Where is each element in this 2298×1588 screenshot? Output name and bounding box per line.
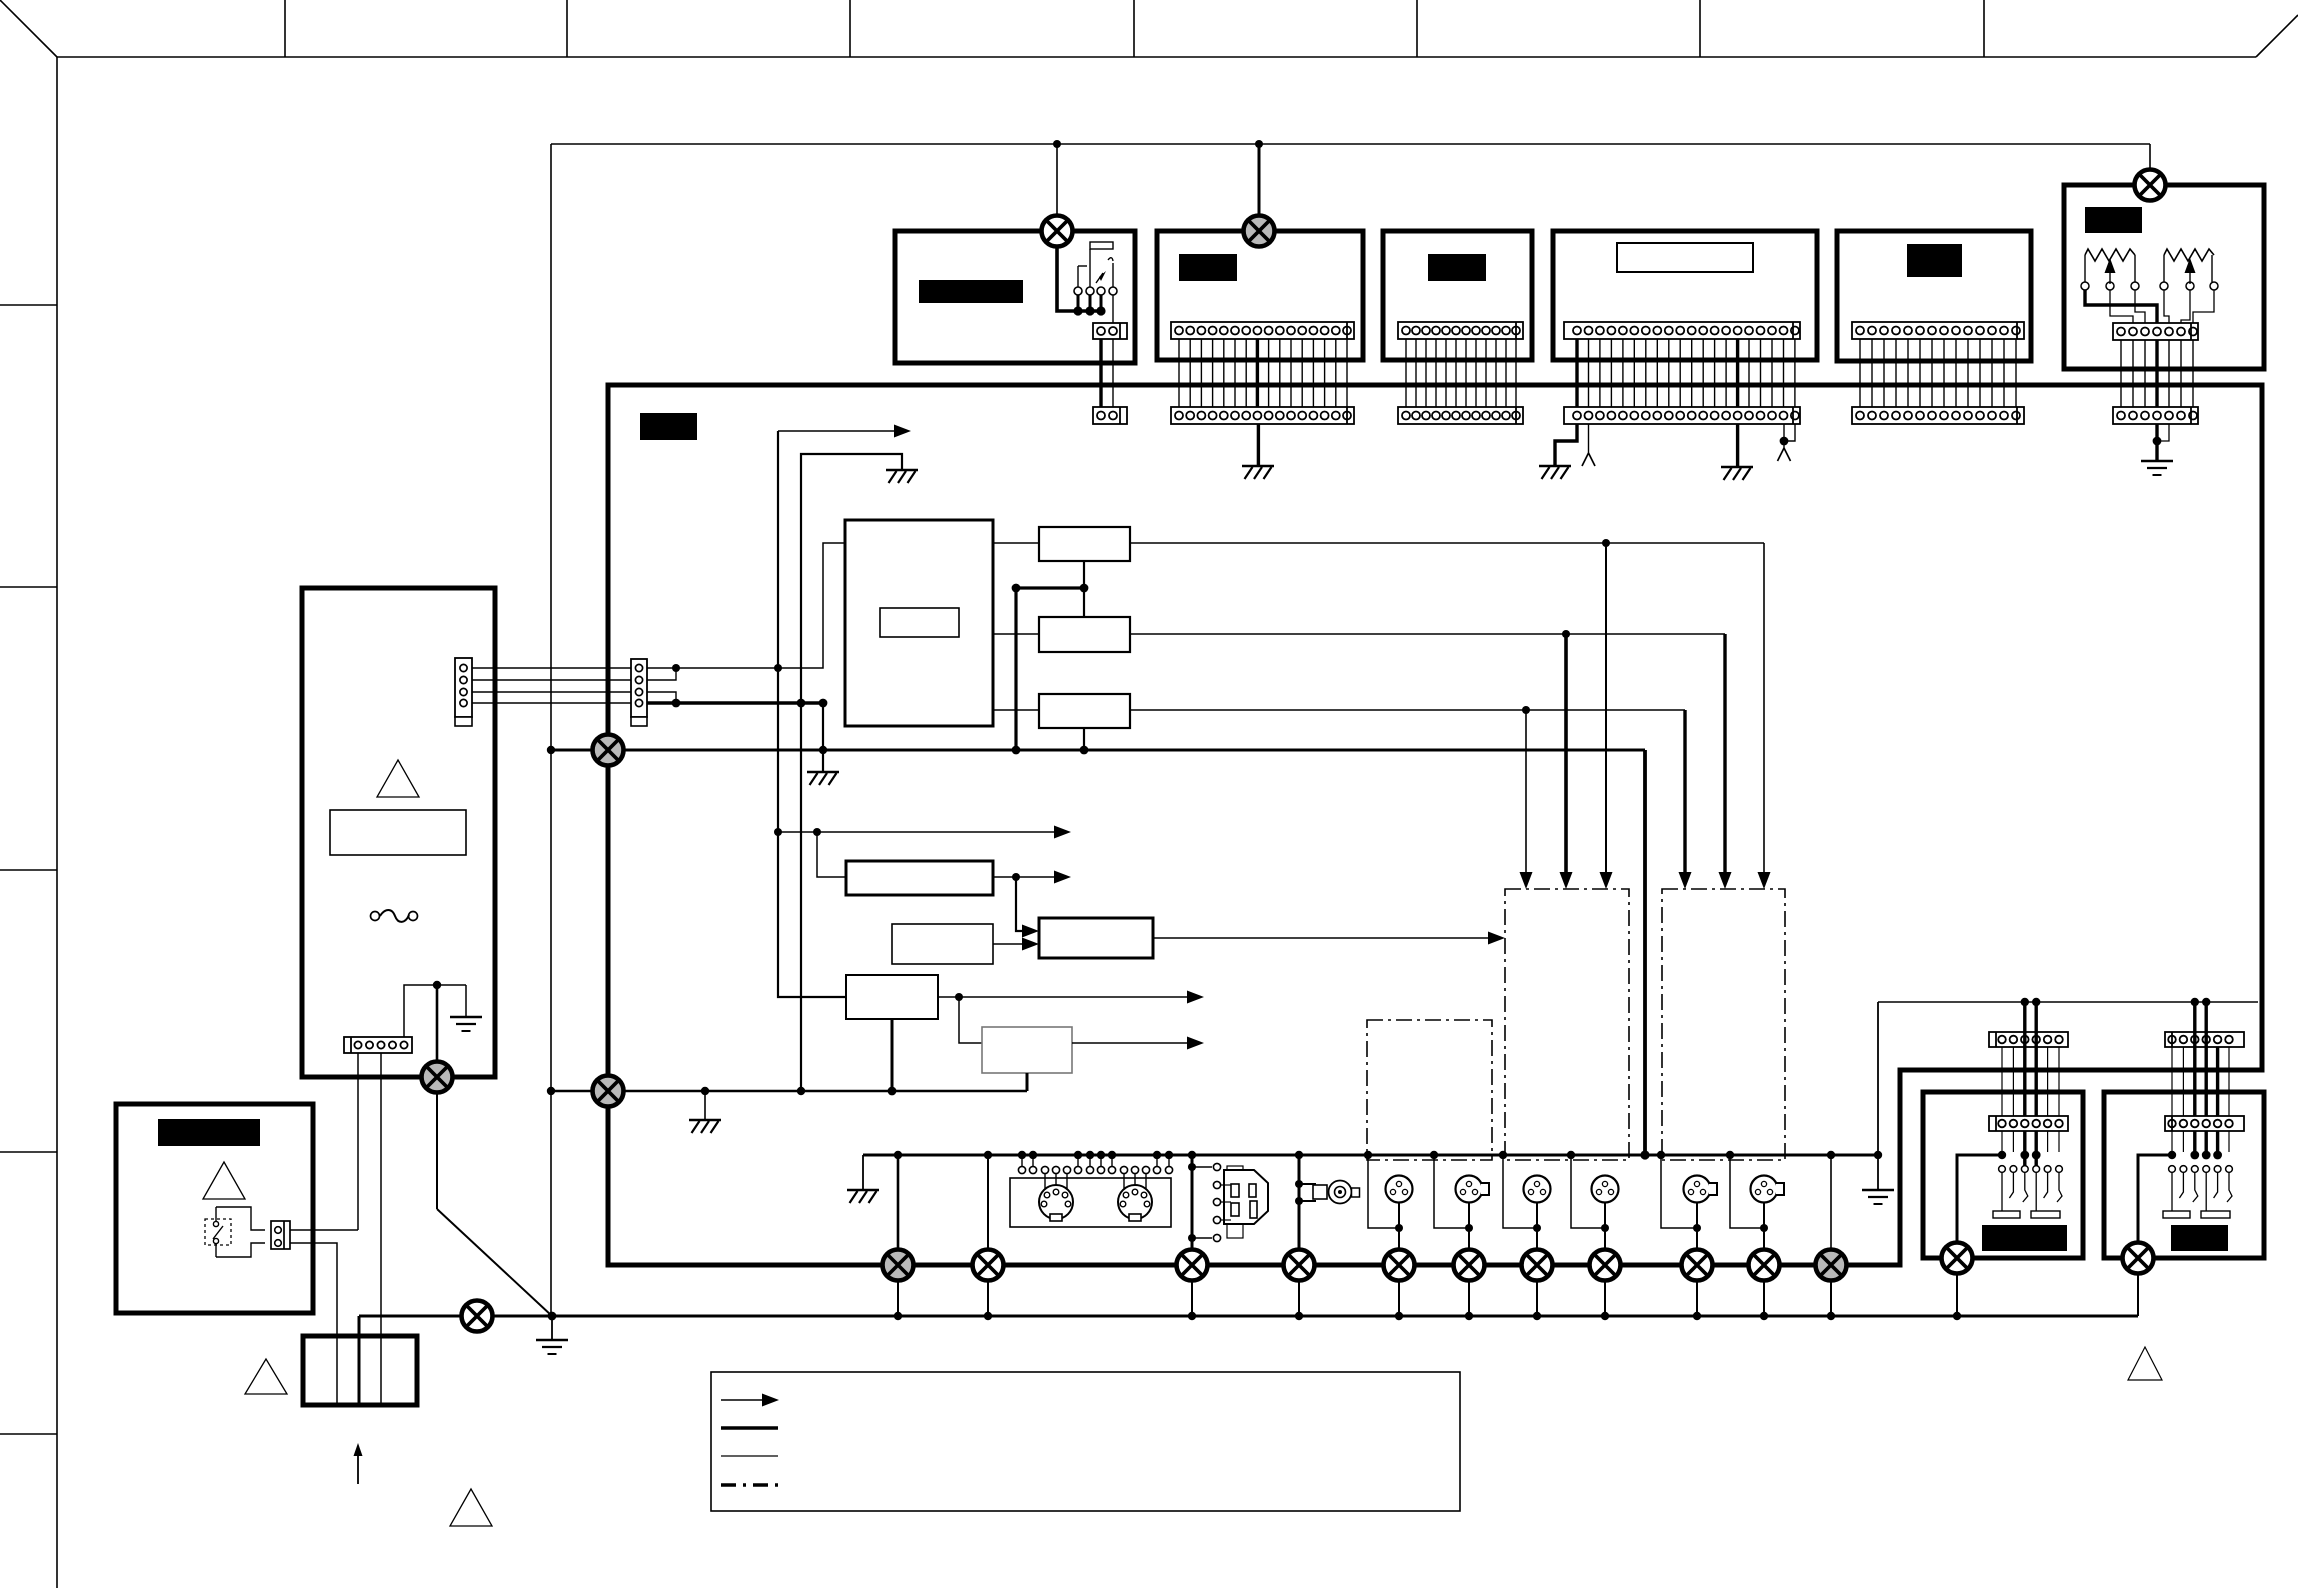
- wire pad stub up x1112: [1111, 1155, 1113, 1166]
- switch box connector: [271, 1221, 290, 1249]
- wire output feed y1002: [1878, 1001, 2258, 1003]
- wire rail left end drop: [862, 1155, 864, 1190]
- junction rail x1169: [1165, 1151, 1173, 1159]
- interconnect X output L: [1942, 1243, 1973, 1274]
- R8 block: [982, 1027, 1072, 1073]
- wire XLR3 stem: [1536, 1203, 1538, 1250]
- ground top arrow line: [886, 470, 918, 483]
- legend arrow row: [721, 1399, 763, 1401]
- junction rail x1033: [1029, 1151, 1037, 1159]
- wire R7 to R8: [959, 997, 982, 1043]
- wire pad stub up x1022: [1021, 1155, 1023, 1166]
- wire R7 output arrow: [938, 996, 1187, 998]
- earth ground main: [536, 1340, 568, 1354]
- main board connector to board5 (14pin): [1852, 407, 2024, 424]
- USB pad y1220: [1213, 1216, 1220, 1223]
- interconnect X output R: [2123, 1243, 2154, 1274]
- wire psu earth run: [404, 985, 466, 1037]
- interconnect X psu bottom (gray): [422, 1062, 453, 1093]
- R6 block: [1039, 918, 1153, 958]
- wire IC to R2: [993, 633, 1039, 635]
- USB pad y1185: [1213, 1181, 1220, 1188]
- wire XLR2 stem: [1468, 1203, 1470, 1250]
- wire X1697 to bottom bus: [1696, 1280, 1698, 1316]
- junction top wire / board1 drop: [1053, 140, 1061, 148]
- junction rail x1661: [1657, 1151, 1665, 1159]
- chassis ground board4 pin19: [1778, 448, 1791, 461]
- board3 name label: [1428, 254, 1486, 281]
- wire board4 pin20 join: [1784, 424, 1795, 441]
- R5 block: [892, 924, 993, 964]
- junction bottom bus x988: [984, 1312, 992, 1320]
- frame tick left 2: [0, 586, 57, 588]
- warning triangle AC inlet: [245, 1359, 287, 1394]
- wire drop to board6 X: [2149, 144, 2151, 170]
- junction bottom bus x1469: [1465, 1312, 1473, 1320]
- wire board4 pin1 ground: [1555, 424, 1577, 466]
- board6 box (volume pots): [2064, 185, 2264, 369]
- wire XLR3 rail branch: [1503, 1155, 1537, 1228]
- interconnect X bottom x1764: [1749, 1250, 1780, 1281]
- wire R3 output: [1130, 709, 1685, 711]
- IC main LSI box: [845, 520, 993, 726]
- DIN connector 1: [1039, 1185, 1073, 1221]
- interconnect X board1 top: [1042, 216, 1073, 247]
- wires output L verticals: [2001, 1047, 2003, 1116]
- board1 power switch circuit: [1090, 242, 1113, 249]
- DIN connector 2: [1118, 1185, 1152, 1221]
- junction bottom bus earth: [548, 1312, 557, 1321]
- wire R4 to R6: [1016, 877, 1022, 931]
- wire pad to DIN1 x1067: [1066, 1174, 1068, 1192]
- wire bus1 drop to rail: [1643, 750, 1647, 1155]
- potentiometer VR1: [2085, 249, 2135, 261]
- board1 internal thick bus: [1057, 247, 1101, 311]
- wire XLR6 stem: [1763, 1203, 1765, 1250]
- fuse symbol: [371, 910, 418, 922]
- sheet frame corner diagonal top-left: [0, 0, 57, 57]
- frame tick top 6: [1699, 0, 1701, 57]
- wire pad stub up x1090: [1089, 1155, 1091, 1166]
- legend box: [711, 1372, 1460, 1511]
- interconnect X bottom x1469: [1454, 1250, 1485, 1281]
- board3 box: [1383, 231, 1532, 360]
- wire pad stub up x1169: [1168, 1155, 1170, 1166]
- frame tick top 3: [849, 0, 851, 57]
- board2 connector (16pin): [1171, 322, 1354, 339]
- wire top loop horizontal: [551, 143, 2150, 145]
- R2 block: [1039, 617, 1130, 652]
- wire board4 pin15 ground: [1736, 424, 1739, 467]
- board5 connector (14pin): [1852, 322, 2024, 339]
- wire ground rail y1155: [863, 1154, 1878, 1157]
- junction board4 pins19-20: [1780, 437, 1789, 446]
- AC inlet box: [303, 1336, 417, 1405]
- wire X1537 to bottom bus: [1536, 1280, 1538, 1316]
- interconnect X bottom gray x1831: [1816, 1250, 1847, 1281]
- wire bottom bus into AC inlet: [358, 1316, 361, 1405]
- junction bottom bus x1697: [1693, 1312, 1701, 1320]
- wire XLR2 rail branch: [1434, 1155, 1469, 1228]
- wire ground branch x823: [822, 703, 824, 772]
- interconnect X bottom x1537: [1522, 1250, 1553, 1281]
- wire pad stub up x1078: [1077, 1155, 1079, 1166]
- wires board4 to main board: [1575, 339, 1578, 407]
- junction XLR5: [1693, 1224, 1701, 1232]
- board1 box (power switch panel): [895, 231, 1135, 363]
- wire X1192 to bottom bus: [1191, 1280, 1193, 1316]
- board3 connector (12pin): [1398, 322, 1523, 339]
- junction bottom bus x898: [894, 1312, 902, 1320]
- wire psu chassis diagonal: [436, 1092, 438, 1209]
- frame tick top 7: [1983, 0, 1985, 57]
- legend thin line row: [721, 1455, 778, 1457]
- wires board6 to main board: [2120, 340, 2122, 407]
- wires board5 to main board: [1859, 339, 1861, 407]
- interconnect X main board left lower (gray): [593, 1076, 624, 1107]
- wire to R4: [817, 832, 846, 877]
- wire switch to inlet: [290, 1243, 337, 1405]
- wire rail right end to earth: [1877, 1002, 1879, 1190]
- wire board1 pin1 thick: [1099, 339, 1102, 407]
- wire output R X to bus: [2137, 1272, 2139, 1316]
- wires output R verticals: [2171, 1047, 2173, 1116]
- warning triangle outputs: [2128, 1347, 2162, 1380]
- sheet frame corner diagonal top-right: [2256, 15, 2298, 57]
- junction bottom bus x1605: [1601, 1312, 1609, 1320]
- earth ground board6: [2141, 461, 2173, 475]
- wire board6 ground: [2155, 424, 2158, 460]
- wire pad to DIN2 x1135: [1134, 1174, 1136, 1192]
- wire ground line (thick): [647, 701, 823, 704]
- junction rail x1157: [1153, 1151, 1161, 1159]
- wire arrow A: [778, 430, 903, 432]
- wire XLR5 stem: [1696, 1203, 1698, 1250]
- wire analog bus y750: [551, 749, 1645, 752]
- interconnect X board6 top: [2135, 170, 2166, 201]
- junction rail x1078: [1074, 1151, 1082, 1159]
- wire R8 to bus2: [1026, 1073, 1029, 1091]
- junction board6 ground: [2153, 437, 2162, 446]
- wire drops into dashed DSP boxes: [1525, 710, 1527, 874]
- main board connector from psu (4pin): [631, 659, 647, 726]
- wire pad to DIN1 x1045: [1044, 1174, 1046, 1192]
- output box L label: [1982, 1225, 2067, 1251]
- wire XLR5 rail branch: [1661, 1155, 1697, 1228]
- power supply box: [302, 588, 495, 1077]
- main board outline: [608, 385, 2262, 1265]
- wire XLR6 rail branch: [1730, 1155, 1764, 1228]
- frame tick top 4: [1133, 0, 1135, 57]
- frame tick left 4: [0, 1151, 57, 1153]
- junction bottom bus x1764: [1760, 1312, 1768, 1320]
- wire X988 to rail: [987, 1155, 989, 1250]
- junction bottom bus x1299: [1295, 1312, 1303, 1320]
- wire IC to R3: [993, 709, 1039, 711]
- upper connector output L: [1989, 1032, 2068, 1047]
- main board connector to board4 (20pin): [1564, 407, 1800, 424]
- frame tick left 1: [0, 304, 57, 306]
- junction rail x1503: [1499, 1151, 1507, 1159]
- junction rail x1112: [1108, 1151, 1116, 1159]
- board1 name label: [919, 280, 1023, 303]
- wire pad stub up x1101: [1100, 1155, 1102, 1166]
- IC inner label outline: [880, 608, 959, 637]
- sheet frame left border: [56, 57, 58, 1588]
- junction bottom bus x1192: [1188, 1312, 1196, 1320]
- interconnect X bottom gray x898: [883, 1250, 914, 1281]
- board4 connector (20pin): [1564, 322, 1800, 339]
- wire R3 to bus1: [1083, 728, 1085, 750]
- inner connector output R: [2165, 1116, 2244, 1131]
- R3 block: [1039, 694, 1130, 728]
- frame tick top 2: [566, 0, 568, 57]
- chassis ground board4 pin2: [1582, 453, 1595, 466]
- junction top wire / board2 drop: [1255, 140, 1263, 148]
- frame tick top 1: [284, 0, 286, 57]
- warning triangle psu: [377, 760, 419, 797]
- output box R label: [2171, 1225, 2228, 1251]
- frame tick top 5: [1416, 0, 1418, 57]
- USB pad y1238: [1213, 1234, 1220, 1241]
- wire board1 pin2: [1112, 339, 1114, 407]
- ground board4 right: [1721, 467, 1753, 480]
- board5 name label: [1907, 244, 1962, 277]
- AC inlet up arrow: [357, 1452, 359, 1484]
- interconnect X board2 top (gray): [1244, 216, 1275, 247]
- junction XLR6: [1760, 1224, 1768, 1232]
- wire gray X898 to rail: [897, 1155, 900, 1250]
- frame tick left 3: [0, 869, 57, 871]
- potentiometer VR2: [2164, 249, 2214, 261]
- main board connector to board2 (16pin): [1171, 407, 1354, 424]
- R7 block: [846, 975, 938, 1019]
- XLR connector 6: [1751, 1176, 1785, 1203]
- wire XLR1 rail branch: [1368, 1155, 1399, 1228]
- junction rail x1192: [1188, 1151, 1196, 1159]
- board2 name label: [1179, 254, 1237, 281]
- wire X898 to bottom bus: [897, 1280, 899, 1316]
- junction XLR3: [1533, 1224, 1541, 1232]
- wire X1299 to bottom bus: [1298, 1280, 1300, 1316]
- wire psu pin3 to inlet: [380, 1053, 382, 1405]
- wire R4 output arrow: [993, 876, 1054, 878]
- wire pad to DIN1 x1056: [1055, 1174, 1057, 1192]
- junction rail x1368: [1364, 1151, 1372, 1159]
- solder pads row: [1018, 1166, 1025, 1173]
- wire XLR4 stem: [1604, 1203, 1606, 1250]
- XLR connector 3: [1524, 1176, 1551, 1203]
- junction rail x1878: [1874, 1151, 1882, 1159]
- wire IC to R1: [993, 542, 1039, 544]
- wire R6 output to dashed box: [1153, 937, 1497, 939]
- wire bus2 ground drop: [704, 1091, 706, 1120]
- interconnect X bottom x1299: [1284, 1250, 1315, 1281]
- board6 pot wiring: [2085, 290, 2157, 323]
- junction bottom bus x1537: [1533, 1312, 1541, 1320]
- interconnect X bottom x1605: [1590, 1250, 1621, 1281]
- junction bottom bus x1399: [1395, 1312, 1403, 1320]
- wire +B line to IC: [647, 543, 846, 668]
- psu output connector (4pin): [455, 658, 472, 726]
- output jack box R: [2104, 1092, 2264, 1258]
- board4 display outline: [1617, 243, 1753, 272]
- wire board4 pin19 chassis: [1783, 424, 1785, 448]
- psu ac connector (5pin): [344, 1037, 412, 1053]
- warning triangle bottom: [450, 1489, 492, 1526]
- junction rail x988: [984, 1151, 992, 1159]
- junction rail x1730: [1726, 1151, 1734, 1159]
- wire pad to DIN2 x1146: [1145, 1174, 1147, 1192]
- junction rail x898: [894, 1151, 902, 1159]
- wire board6 pin5 join: [2157, 424, 2169, 441]
- junction psu earth: [433, 981, 441, 989]
- USB pad y1202: [1213, 1198, 1220, 1205]
- output L jack hooks: [2001, 1173, 2003, 1211]
- inner connector output L: [1989, 1116, 2068, 1131]
- wire drop to board1 X: [1056, 144, 1058, 217]
- board1 connector (2pin): [1093, 323, 1127, 339]
- junction XLR2: [1465, 1224, 1473, 1232]
- wire X1831 to bottom bus: [1830, 1280, 1832, 1316]
- output R jack hooks: [2171, 1173, 2173, 1211]
- sheet frame top border: [57, 56, 2256, 58]
- junction rail x1571: [1567, 1151, 1575, 1159]
- board1 switch pins: [1074, 287, 1082, 295]
- junction rail x1299: [1295, 1151, 1303, 1159]
- wire psu earth drop: [465, 985, 467, 1017]
- wire RCA vertical: [1298, 1155, 1301, 1250]
- interconnect X bottom x988: [973, 1250, 1004, 1281]
- interconnect X bottom bus: [462, 1301, 493, 1332]
- wire arrow B from x778: [778, 831, 1054, 833]
- legend thick line row: [721, 1426, 778, 1430]
- interconnect X bottom x1697: [1682, 1250, 1713, 1281]
- dashed option box D1: [1505, 889, 1629, 1160]
- wire ground vertical x801: [801, 454, 902, 1091]
- wire psu to chassis: [436, 985, 439, 1062]
- earth ground rail right: [1862, 1190, 1894, 1204]
- wires board3 to main board: [1405, 339, 1407, 407]
- wire drop to board2 X: [1258, 144, 1261, 216]
- R1 block: [1039, 527, 1130, 561]
- interconnect X bottom x1192: [1177, 1250, 1208, 1281]
- wire XLR1 stem: [1398, 1203, 1400, 1250]
- wire USB vertical: [1191, 1155, 1194, 1250]
- wire board4 pin2 chassis: [1588, 424, 1590, 453]
- wire XLR4 rail branch: [1571, 1155, 1605, 1228]
- wire X1399 to bottom bus: [1398, 1280, 1400, 1316]
- wires psu to main board (4): [472, 667, 631, 669]
- wire IC link drop to bus1: [1014, 588, 1017, 750]
- wire top loop left vertical: [550, 144, 552, 1316]
- wire R2 output: [1130, 633, 1725, 635]
- wire psu pin1 to switch: [357, 1053, 359, 1230]
- board4 box: [1553, 231, 1817, 360]
- wire pad to DIN2 x1124: [1123, 1174, 1125, 1192]
- wire X1764 to bottom bus: [1763, 1280, 1765, 1316]
- earth ground psu: [450, 1017, 482, 1031]
- wire IC thick link: [1016, 586, 1084, 589]
- dashed option box D2: [1662, 889, 1785, 1160]
- wire X1469 to bottom bus: [1468, 1280, 1470, 1316]
- interconnect X bottom x1399: [1384, 1250, 1415, 1281]
- junction XLR1: [1395, 1224, 1403, 1232]
- output L jack contacts: [1957, 1155, 2002, 1250]
- psu rating label outline: [330, 810, 466, 855]
- wire pad stub up x1033: [1032, 1155, 1034, 1166]
- junction rail x1434: [1430, 1151, 1438, 1159]
- MIDI connector block outline: [1010, 1178, 1171, 1227]
- XLR connector 5: [1684, 1176, 1718, 1203]
- board6 name label: [2085, 207, 2142, 233]
- main board connector to board3 (12pin): [1398, 407, 1523, 424]
- wire bottom earth bus: [359, 1315, 2138, 1318]
- output R jack contacts: [2138, 1155, 2172, 1250]
- power switch box: [116, 1104, 313, 1313]
- junction rail x1101: [1097, 1151, 1105, 1159]
- wire pin2 join: [647, 668, 676, 680]
- main board connector to board1: [1093, 407, 1127, 424]
- junction XLR4: [1601, 1224, 1609, 1232]
- junction bottom bus x1831: [1827, 1312, 1835, 1320]
- ground rail left: [847, 1190, 879, 1203]
- wire pad stub up x1157: [1156, 1155, 1158, 1166]
- junction bus1 on rail: [1640, 1150, 1649, 1159]
- wire R8 output arrow: [1072, 1042, 1187, 1044]
- wire R1 output: [1130, 542, 1764, 544]
- wire pin3 join: [647, 692, 676, 703]
- wire R7 to bus2: [891, 1019, 894, 1091]
- wire output L X to bus: [1956, 1272, 1958, 1316]
- junction rail x1022: [1018, 1151, 1026, 1159]
- XLR connector 4: [1592, 1176, 1619, 1203]
- wire R1-R2 link: [1083, 561, 1085, 617]
- output jack box L: [1923, 1092, 2083, 1258]
- frame tick left 5: [0, 1433, 57, 1435]
- USB pad y1167: [1213, 1163, 1220, 1170]
- board5 box: [1837, 231, 2031, 361]
- warning triangle switch box: [203, 1162, 245, 1199]
- wires switch box to psu/inlet: [290, 1229, 358, 1231]
- interconnect X main board left upper (gray): [593, 735, 624, 766]
- junction rail x1090: [1086, 1151, 1094, 1159]
- legend dash-dot row: [721, 1483, 778, 1487]
- board6 connector (7pin): [2113, 323, 2198, 340]
- upper connector output R: [2165, 1032, 2244, 1047]
- wire gray X1831 to rail: [1830, 1155, 1832, 1250]
- XLR connector 1: [1386, 1176, 1413, 1203]
- main board connector to board6 (7pin): [2113, 407, 2198, 424]
- dashed option box D3: [1367, 1020, 1492, 1160]
- ground bus2: [689, 1120, 721, 1133]
- wire digital bus y1091: [551, 1090, 1027, 1093]
- ground board2: [1242, 466, 1274, 479]
- main board name label: [640, 413, 697, 440]
- junction rail x1831: [1827, 1151, 1835, 1159]
- board2 box: [1157, 231, 1363, 360]
- wire X988 to bottom bus: [987, 1280, 989, 1316]
- ground board4 left: [1539, 466, 1571, 479]
- wires board2 to main board: [1178, 339, 1180, 407]
- wire signal vertical x778: [778, 431, 846, 997]
- XLR connector 2: [1456, 1176, 1490, 1203]
- ground bus1 branch: [807, 772, 839, 785]
- switch box name label: [158, 1119, 260, 1146]
- wire R5 to R6: [993, 943, 1022, 945]
- wire X1605 to bottom bus: [1604, 1280, 1606, 1316]
- mains switch symbol: [205, 1219, 231, 1245]
